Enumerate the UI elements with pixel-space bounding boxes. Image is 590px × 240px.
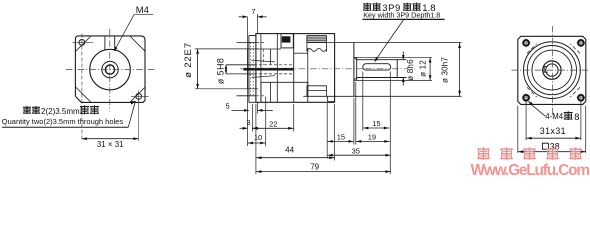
note leader line bbox=[128, 102, 135, 128]
hole TL vertical centerline / extension to 31x31 dim bbox=[81, 34, 83, 142]
svg-text:79: 79 bbox=[310, 163, 319, 172]
left view corner pad chamfer BL bbox=[76, 87, 91, 102]
watermark chinese characters bbox=[477, 148, 490, 150]
label 4-M4 leader arrowhead bbox=[528, 101, 533, 106]
input boss face line bbox=[247, 49, 249, 89]
right view tapped hole M4 TR bbox=[578, 40, 583, 45]
internal line cavity right bbox=[307, 48, 309, 96]
extension line body right for dim 44 bbox=[334, 104, 336, 161]
bottom bearing lines bbox=[327, 96, 329, 101]
left view horizontal centerline bbox=[66, 69, 155, 71]
extension line 252.4 for dims 3/22 bbox=[251, 104, 253, 132]
hidden dotted screw line vertical bbox=[249, 43, 251, 96]
dimension o22E7 extension lines bbox=[195, 48, 258, 50]
svg-text:22: 22 bbox=[269, 119, 277, 128]
left view mounting hole top-left 3.5mm bbox=[79, 40, 85, 46]
shaft root chamfer bottom bbox=[354, 78, 357, 81]
dimension o12 bbox=[429, 57, 431, 80]
input boss face extension line (dims 7/3/10) bbox=[247, 17, 249, 49]
internal line upper bbox=[269, 49, 271, 65]
dimension 19 (shaft) bbox=[356, 140, 390, 142]
svg-text:ø 8h6: ø 8h6 bbox=[406, 59, 415, 81]
svg-text:38: 38 bbox=[550, 142, 560, 152]
dimension 35 bbox=[327, 154, 391, 156]
wave washer box bbox=[307, 42, 327, 51]
right view circle boss large bbox=[524, 42, 581, 99]
left view corner pad chamfer TR bbox=[130, 36, 145, 51]
svg-text:31 × 31: 31 × 31 bbox=[97, 140, 124, 149]
dimension o22E7 line and arrows bbox=[197, 49, 199, 89]
dimension 31 x 31 (left view) bbox=[82, 138, 138, 140]
dimension o30h7 bbox=[459, 43, 461, 97]
right view circle ring 3 bbox=[532, 50, 572, 90]
internal line planet carrier bbox=[269, 82, 271, 102]
extension line 265.7 for dim 10 bbox=[265, 97, 267, 147]
left view vertical centerline bbox=[109, 29, 111, 112]
right view circle ring 2 bbox=[527, 46, 576, 95]
svg-text:7: 7 bbox=[251, 7, 255, 16]
dimension 15 (keyway) bbox=[363, 127, 390, 129]
left view corner pad chamfer TL bbox=[76, 36, 91, 51]
keyway leader arrowhead bbox=[374, 57, 378, 62]
taper line lower bbox=[251, 76, 275, 78]
hidden dashed vertical b bbox=[263, 49, 265, 65]
svg-text:35: 35 bbox=[352, 147, 360, 156]
label 4-M4 leader bbox=[532, 105, 546, 116]
svg-text:19: 19 bbox=[368, 132, 376, 141]
dimension square38 bbox=[518, 151, 586, 153]
M4 leader line bbox=[134, 14, 153, 16]
svg-text:M4: M4 bbox=[136, 4, 149, 15]
extension line 391 for dims 35/79/15key bbox=[389, 72, 391, 175]
key slot centerline dashes bbox=[365, 68, 389, 70]
left view keyway slot lines bbox=[104, 36, 106, 50]
svg-text:ø 30h7: ø 30h7 bbox=[441, 57, 450, 83]
note underline bbox=[2, 126, 128, 128]
taper line upper bbox=[251, 60, 275, 62]
svg-text:5: 5 bbox=[226, 101, 230, 110]
output flange face line bbox=[353, 43, 355, 97]
dimension 15 (flange) bbox=[327, 140, 354, 142]
output boss bottom line + ext to o12 dim bbox=[354, 79, 432, 81]
dimension 44 bbox=[256, 157, 335, 159]
dimension 31x31 (right view) extension lines bbox=[525, 101, 527, 140]
svg-text:31x31: 31x31 bbox=[540, 126, 566, 136]
M4 leader arrowhead bbox=[114, 47, 118, 52]
output shaft end line bbox=[396, 60, 398, 78]
svg-text:10: 10 bbox=[254, 133, 262, 142]
note text chinese: quantity 2 3.5mm through holes bbox=[23, 106, 31, 108]
right view corner pad diagonal bbox=[527, 87, 537, 97]
dimension o8h6 bbox=[402, 52, 404, 60]
dimension 31x31 (right view) bbox=[526, 137, 581, 139]
dimension o5H8 line and arrows bbox=[225, 65, 227, 74]
keyway leader line bbox=[375, 20, 404, 62]
svg-text:Quantity two(2)3.5mm through h: Quantity two(2)3.5mm through holes bbox=[2, 117, 124, 126]
svg-text:15: 15 bbox=[372, 119, 380, 128]
extension line 293.7 for dim 22 bbox=[293, 104, 295, 132]
svg-text:2(2)3.5mm: 2(2)3.5mm bbox=[41, 107, 80, 116]
hole BR horizontal centerline bbox=[131, 95, 149, 97]
motor screw hole bottom line bbox=[237, 95, 256, 97]
svg-text:Key width 3P9 Depth1.8: Key width 3P9 Depth1.8 bbox=[363, 10, 440, 19]
right view tapped hole M4 TL bbox=[523, 40, 528, 45]
internal wall line mid bbox=[276, 34, 278, 103]
right view corner pad diagonal bbox=[527, 44, 537, 54]
right view inner circle bbox=[546, 64, 558, 76]
section body outline bbox=[256, 34, 335, 103]
right view horizontal centerline bbox=[512, 69, 590, 71]
svg-text:ø 12: ø 12 bbox=[419, 60, 428, 77]
output flange bottom line + extension bbox=[303, 95, 461, 97]
left view pilot circle o22E7 bbox=[90, 49, 131, 90]
right view corner pad diagonal bbox=[570, 87, 580, 97]
internal cavity top line bbox=[256, 48, 281, 50]
extension line 362.8 keyway left bbox=[362, 72, 364, 131]
right view shaft circle o8 bbox=[543, 61, 561, 79]
internal wall line 1 bbox=[260, 34, 262, 103]
svg-text:8: 8 bbox=[574, 111, 579, 122]
left view hub circle bbox=[102, 61, 118, 77]
right view keyway notch bbox=[544, 66, 548, 72]
internal gear cavity rect (lower) bbox=[261, 82, 308, 102]
wave washer wavy line bbox=[307, 48, 327, 51]
extension line 353.9 for dim 15 bbox=[353, 98, 355, 145]
svg-text:3: 3 bbox=[246, 118, 250, 127]
hole TL horizontal centerline bbox=[73, 41, 94, 43]
input shaft dark band bbox=[243, 68, 293, 71]
output shaft top line + ext stub bbox=[357, 59, 407, 61]
note leader arrowhead bbox=[130, 101, 136, 105]
left view mounting hole bottom-right 3.5mm bbox=[136, 94, 142, 100]
bottom bearing mid line bbox=[307, 90, 327, 92]
right view corner pad diagonal bbox=[570, 44, 580, 54]
svg-text:44: 44 bbox=[285, 146, 294, 155]
right view: output flange outline bbox=[518, 36, 586, 104]
extension line body left for dims 44/79 bbox=[255, 104, 257, 174]
hidden dashed vertical a bbox=[252, 43, 254, 96]
svg-text:15: 15 bbox=[337, 132, 345, 141]
left view bore circle o5H8 bbox=[105, 65, 114, 74]
left view corner pad chamfer BR bbox=[130, 87, 145, 102]
right view tapped hole M4 BR bbox=[578, 95, 583, 100]
dimension 5 bbox=[232, 109, 249, 111]
input plate bottom edge bbox=[249, 101, 256, 103]
top screw dark block bbox=[282, 36, 291, 42]
right view tapped hole M4 BL bbox=[523, 95, 528, 100]
dimension 22 bbox=[252, 127, 293, 129]
internal step line right cell bbox=[294, 52, 308, 54]
internal wall line 2 bbox=[293, 34, 295, 103]
input bore hidden lines o5 bbox=[249, 64, 294, 66]
dimension 3 bbox=[240, 127, 248, 129]
keyway note underline bbox=[362, 18, 444, 20]
dimension square38 extension lines bbox=[517, 106, 519, 153]
extension line 327.2 for dims 15/35 bbox=[326, 103, 328, 159]
svg-text:ø 22E7: ø 22E7 bbox=[183, 42, 194, 78]
input plate face line bbox=[248, 36, 250, 103]
right view vertical centerline bbox=[552, 26, 554, 116]
svg-text:4-M4: 4-M4 bbox=[545, 112, 563, 121]
motor screw hole top line bbox=[237, 41, 256, 43]
bottom bearing box bbox=[307, 86, 327, 96]
svg-text:Www.GeLufu.Com: Www.GeLufu.Com bbox=[471, 162, 590, 179]
extension line right of 7-dim bbox=[257, 14, 259, 33]
output boss top line + ext to o12 dim bbox=[354, 56, 432, 58]
extension line 355.8 for dim 19 bbox=[355, 82, 357, 145]
dimension o5H8 extension lines bbox=[226, 64, 255, 66]
output flange top line + extension bbox=[307, 42, 462, 44]
key slot on shaft bbox=[363, 64, 391, 70]
dimension 7 (top) bbox=[239, 16, 248, 18]
shaft root chamfer top bbox=[354, 57, 357, 59]
keyway note chinese line bbox=[363, 3, 371, 5]
hole BR vertical extension to 31x31 dim bbox=[137, 91, 139, 142]
left view: input flange outline bbox=[75, 36, 145, 103]
svg-text:ø 5H8: ø 5H8 bbox=[216, 58, 226, 84]
dimension 79 bbox=[256, 171, 391, 173]
dimension 10 bbox=[248, 142, 266, 144]
section centerline bbox=[240, 68, 408, 70]
input plate top edge bbox=[249, 35, 256, 37]
output boss face line bbox=[356, 57, 358, 80]
top screw box bbox=[281, 34, 293, 48]
output shaft bottom line + ext stub bbox=[357, 77, 407, 79]
bearing hatch block top bbox=[307, 36, 327, 43]
